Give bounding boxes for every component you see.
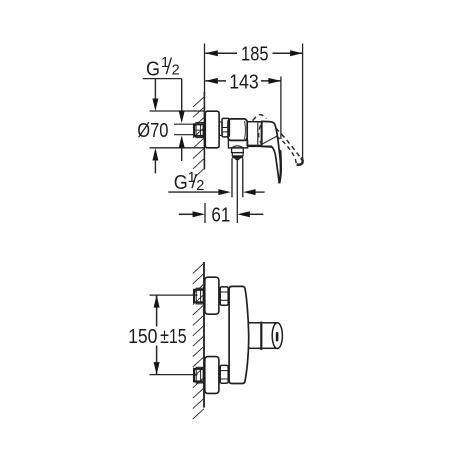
svg-text:2: 2: [172, 62, 180, 78]
svg-text:G: G: [174, 172, 188, 194]
svg-text:150: 150: [128, 325, 157, 348]
svg-text:±15: ±15: [160, 325, 187, 348]
svg-text:G: G: [146, 59, 160, 81]
svg-text:185: 185: [241, 44, 269, 66]
svg-text:61: 61: [211, 205, 230, 227]
svg-text:Ø70: Ø70: [137, 120, 168, 142]
svg-text:143: 143: [229, 71, 259, 93]
svg-text:2: 2: [196, 178, 204, 194]
